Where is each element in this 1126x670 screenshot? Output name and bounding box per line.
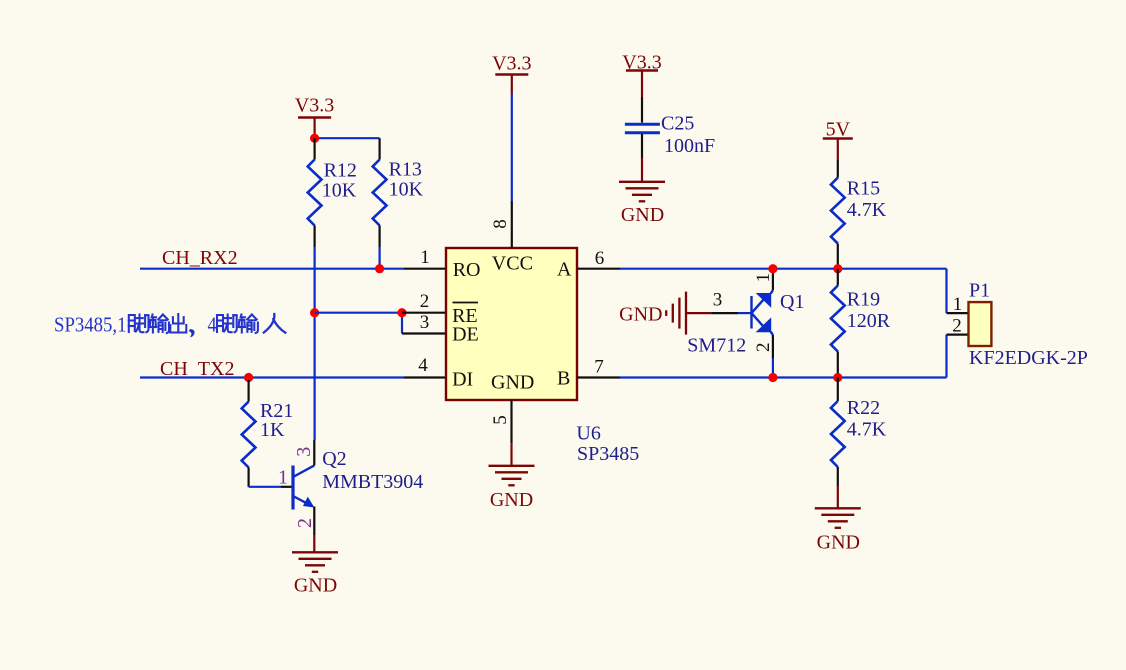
svg-text:RO: RO bbox=[453, 259, 481, 281]
resistor R22 4.7K bbox=[831, 378, 887, 487]
pin 1 RO lead bbox=[404, 247, 446, 269]
resistor R21 1K bbox=[242, 380, 294, 487]
svg-text:10K: 10K bbox=[322, 180, 357, 202]
pin name RE (with overline) bbox=[452, 303, 478, 328]
capacitor C25 100nF bbox=[625, 97, 715, 158]
pin 3 lead (Q1) bbox=[712, 290, 738, 314]
pin 1 lead (P1) bbox=[947, 294, 969, 315]
svg-text:CH_RX2: CH_RX2 bbox=[162, 247, 238, 269]
transistor Q1 SM712 TVS bbox=[738, 290, 773, 335]
pin 1 lead (Q2 base) bbox=[278, 467, 292, 489]
power V3.3 (left) bbox=[295, 95, 334, 139]
svg-text:3: 3 bbox=[713, 290, 723, 311]
pin 7 B lead bbox=[577, 357, 620, 378]
pin 5 GND lead bbox=[490, 400, 512, 443]
wire V3.3 junction to R13 top bbox=[315, 138, 380, 159]
svg-text:5: 5 bbox=[490, 415, 511, 425]
resistor R12 bbox=[308, 138, 357, 247]
pin 2 lead (Q2 emitter) bbox=[294, 507, 316, 536]
power V3.3 (C25) bbox=[622, 52, 661, 98]
node B/R19 junction bbox=[833, 373, 842, 382]
svg-text:3: 3 bbox=[420, 312, 430, 333]
svg-text:4.7K: 4.7K bbox=[847, 419, 887, 441]
svg-text:KF2EDGK-2P: KF2EDGK-2P bbox=[969, 347, 1088, 369]
resistor R13 bbox=[373, 159, 424, 269]
svg-text:B: B bbox=[557, 368, 570, 390]
pin 3 DE lead bbox=[402, 312, 446, 334]
wire net A bbox=[620, 269, 947, 313]
svg-text:R19: R19 bbox=[847, 289, 880, 311]
svg-text:V3.3: V3.3 bbox=[492, 53, 531, 75]
pin 2 lead (P1) bbox=[947, 316, 969, 337]
wire vertical (R12 bottom to Q2 collector) bbox=[314, 247, 316, 440]
svg-text:DE: DE bbox=[452, 324, 479, 346]
node R13/CH_RX2 junction bbox=[375, 264, 384, 273]
wire R21 to Q2 base bbox=[249, 486, 281, 488]
node V3.3 junction bbox=[310, 134, 319, 143]
svg-text:GND: GND bbox=[490, 489, 533, 511]
node A/R15 junction bbox=[833, 264, 842, 273]
svg-text:8: 8 bbox=[490, 219, 511, 229]
ground (Q1, sideways) bbox=[619, 292, 712, 335]
svg-text:1: 1 bbox=[953, 294, 963, 315]
svg-text:4.7K: 4.7K bbox=[847, 199, 887, 221]
svg-text:A: A bbox=[557, 259, 572, 281]
wire RE/DE tap bbox=[315, 313, 402, 334]
svg-text:SP3485: SP3485 bbox=[577, 443, 639, 465]
svg-text:2: 2 bbox=[753, 342, 774, 352]
svg-text:1: 1 bbox=[278, 467, 288, 489]
power 5V bbox=[823, 119, 853, 161]
svg-text:Q1: Q1 bbox=[780, 291, 804, 313]
pin 4 DI lead bbox=[404, 355, 446, 378]
svg-text:MMBT3904: MMBT3904 bbox=[322, 471, 423, 493]
svg-text:GND: GND bbox=[619, 304, 662, 326]
resistor R15 4.7K bbox=[831, 160, 887, 269]
svg-text:C25: C25 bbox=[661, 113, 694, 135]
annotation text SP3485,1脚输出，4脚输入 bbox=[54, 313, 285, 337]
node RE junction bbox=[397, 308, 406, 317]
ground (Q2) bbox=[292, 535, 338, 597]
svg-text:7: 7 bbox=[594, 357, 604, 378]
wire VCC bbox=[511, 94, 513, 201]
connector P1 body bbox=[969, 302, 992, 346]
op-amp U6 SP3485 body bbox=[446, 248, 577, 400]
svg-text:GND: GND bbox=[294, 575, 337, 597]
svg-text:R15: R15 bbox=[847, 178, 880, 200]
svg-text:1K: 1K bbox=[260, 419, 285, 441]
svg-text:SM712: SM712 bbox=[687, 335, 746, 357]
svg-text:100nF: 100nF bbox=[664, 135, 715, 157]
svg-text:R22: R22 bbox=[847, 397, 880, 419]
node B/Q1 junction bbox=[768, 373, 777, 382]
node R21 top junction bbox=[244, 373, 253, 382]
svg-text:3: 3 bbox=[293, 447, 315, 457]
svg-text:4: 4 bbox=[208, 313, 217, 337]
svg-text:P1: P1 bbox=[969, 280, 990, 302]
ground (C25) bbox=[619, 158, 665, 226]
node A/Q1 junction bbox=[768, 264, 777, 273]
svg-text:GND: GND bbox=[491, 372, 534, 394]
node RE/DE tap bbox=[310, 308, 319, 317]
pin 2 RE lead bbox=[402, 291, 446, 313]
pin 3 lead (Q2 collector) bbox=[293, 440, 315, 465]
svg-text:SP3485,1: SP3485,1 bbox=[54, 313, 127, 337]
ground (U6 pin5) bbox=[489, 443, 535, 511]
svg-text:6: 6 bbox=[595, 248, 605, 269]
pin 2 lead (Q1) bbox=[753, 335, 774, 378]
svg-text:120R: 120R bbox=[847, 310, 891, 332]
wire CH_TX2 bbox=[140, 376, 404, 378]
pin 8 VCC lead bbox=[490, 201, 512, 248]
svg-text:U6: U6 bbox=[576, 423, 600, 445]
pin 6 A lead bbox=[577, 248, 620, 269]
svg-text:R12: R12 bbox=[324, 160, 357, 182]
wire net B bbox=[620, 335, 947, 378]
wire CH_RX2 bbox=[140, 268, 404, 270]
power V3.3 (VCC) bbox=[492, 53, 531, 95]
svg-text:2: 2 bbox=[952, 316, 962, 337]
transistor Q2 MMBT3904 bbox=[293, 465, 314, 509]
svg-text:1: 1 bbox=[753, 273, 774, 283]
svg-text:DI: DI bbox=[452, 369, 473, 391]
svg-text:GND: GND bbox=[817, 532, 860, 554]
svg-text:Q2: Q2 bbox=[322, 448, 346, 470]
svg-text:4: 4 bbox=[418, 355, 428, 376]
svg-text:VCC: VCC bbox=[492, 253, 533, 275]
svg-text:GND: GND bbox=[621, 204, 664, 226]
svg-text:2: 2 bbox=[294, 518, 316, 528]
svg-text:1: 1 bbox=[420, 247, 430, 268]
svg-text:10K: 10K bbox=[389, 179, 424, 201]
ground (R22) bbox=[815, 486, 861, 554]
resistor R19 120R bbox=[831, 269, 891, 378]
svg-text:2: 2 bbox=[420, 291, 430, 312]
svg-text:R13: R13 bbox=[389, 159, 422, 181]
pin 1 lead (Q1) bbox=[753, 270, 774, 290]
svg-text:V3.3: V3.3 bbox=[295, 95, 334, 117]
